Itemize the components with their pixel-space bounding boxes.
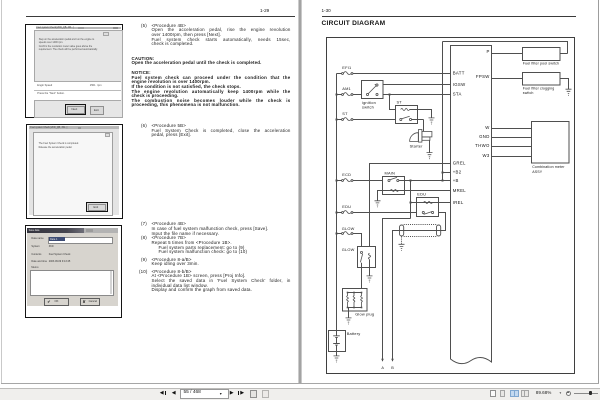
svg-text:ST: ST	[397, 99, 403, 104]
svg-text:ASSY: ASSY	[532, 170, 543, 174]
wire IGSW	[383, 84, 451, 86]
svg-text:IGSW: IGSW	[453, 82, 466, 87]
junction +B branch to EDU	[410, 180, 412, 182]
junction +B	[442, 180, 444, 182]
wire P to pool switch	[492, 53, 523, 55]
svg-text:GREL: GREL	[453, 161, 466, 166]
svg-text:MAIN: MAIN	[385, 170, 396, 175]
ground ST relay	[429, 118, 435, 124]
junction ST on rail	[336, 119, 338, 121]
wire AM1 to ignition switch	[337, 94, 362, 96]
wire EDU out to shielded cable	[439, 213, 446, 231]
shielded cable tube right	[437, 225, 441, 236]
ground battery	[334, 356, 340, 362]
right viewer edge	[598, 0, 599, 383]
wire IREL through EDU coil	[411, 202, 451, 204]
wire BATT	[337, 73, 451, 75]
junction +B2	[442, 172, 444, 174]
junction STA branch	[389, 94, 391, 96]
junction AM1 on rail	[336, 94, 338, 96]
wire ST fuse to ST relay	[337, 119, 396, 121]
junction GLOW on rail	[336, 233, 338, 235]
svg-text:+B2: +B2	[453, 170, 462, 175]
glow plug coil 3	[361, 293, 363, 308]
junction ECD on rail	[336, 180, 338, 182]
left page	[2, 0, 298, 383]
wire glow relay contact to glow plugs	[361, 263, 363, 289]
page bottom shadow	[1, 383, 599, 384]
fuel filter pool switch	[523, 48, 561, 61]
svg-text:+B: +B	[453, 178, 459, 183]
wire W3	[492, 156, 532, 158]
svg-text:BATT: BATT	[453, 71, 465, 76]
wire +B from MAIN contacts	[399, 180, 451, 182]
ground glow relay	[367, 276, 373, 282]
glow plug assembly box	[343, 289, 368, 312]
wire GLOW fuse to glow relay	[337, 234, 362, 247]
wire FPSW to clogging switch	[492, 78, 523, 80]
wire +B2	[443, 172, 451, 174]
shielded cable tube left	[400, 225, 404, 236]
glow plug coil 2	[353, 293, 355, 308]
svg-text:Starter: Starter	[410, 144, 424, 149]
shield dashed outline	[404, 225, 437, 237]
wire ECD fuse to MAIN relay	[337, 180, 383, 182]
EDU driver unit	[417, 198, 439, 217]
wire glow plug to ground	[348, 308, 350, 318]
svg-text:ECD: ECD	[342, 172, 351, 177]
wire A line	[383, 219, 411, 362]
svg-text:ST: ST	[342, 111, 348, 116]
arrow A	[381, 359, 384, 362]
wire ST coil to ground	[410, 110, 432, 118]
starter	[410, 133, 419, 142]
svg-text:FPSW: FPSW	[476, 74, 490, 79]
svg-text:GND: GND	[479, 134, 490, 139]
junction IREL coil feed	[410, 202, 412, 204]
battery	[329, 331, 346, 352]
relay MAIN	[383, 177, 405, 195]
svg-text:A: A	[381, 366, 384, 370]
svg-text:THWO: THWO	[475, 143, 490, 148]
svg-text:EDU: EDU	[342, 204, 351, 209]
svg-text:EDU: EDU	[417, 191, 426, 196]
svg-text:STA: STA	[453, 92, 462, 97]
svg-text:W: W	[485, 125, 490, 130]
glow plug coil 1	[347, 293, 349, 308]
wire GND	[492, 137, 532, 139]
svg-text:GLOW: GLOW	[342, 247, 355, 252]
fuse EFI1	[342, 73, 344, 75]
shield drain dashed	[401, 237, 403, 245]
right page	[302, 0, 597, 383]
wire starter to ground	[429, 140, 431, 152]
ground clogging switch	[566, 89, 572, 95]
svg-text:MREL: MREL	[453, 188, 467, 193]
ground starter	[427, 153, 433, 159]
wire STA branch to ST relay coil	[390, 95, 396, 110]
wire EDU fuse	[337, 212, 417, 214]
wire MREL to MAIN coil	[378, 191, 451, 201]
svg-text:AM1: AM1	[342, 86, 351, 91]
svg-text:Combination meter: Combination meter	[532, 165, 565, 169]
svg-text:Fuel filter pool switch: Fuel filter pool switch	[523, 62, 559, 66]
svg-text:P: P	[486, 49, 489, 54]
right toolbar icons	[490, 390, 495, 397]
combination meter ASSY	[532, 122, 570, 164]
wire W	[492, 128, 532, 130]
wire top feed from pool switch down to +B	[443, 42, 568, 181]
wire THWO	[492, 146, 532, 148]
svg-text:GLOW: GLOW	[342, 226, 355, 231]
relay ST	[396, 106, 418, 124]
ECU main block with torn bottom edge	[451, 46, 492, 364]
svg-text:Battery: Battery	[347, 331, 361, 336]
gutter between pages	[298, 0, 299, 383]
fuse GLOW	[342, 233, 344, 235]
svg-text:B: B	[391, 366, 394, 370]
ground glow plug	[346, 318, 352, 324]
arrow B	[391, 359, 394, 362]
svg-text:W3: W3	[483, 153, 490, 158]
battery supply rail	[336, 74, 338, 331]
svg-text:Fuel filter clogging: Fuel filter clogging	[523, 86, 555, 90]
relay GLOW	[358, 247, 376, 268]
ignition switch	[362, 81, 384, 99]
fuse ECD	[342, 180, 344, 182]
wire STA	[383, 94, 451, 96]
wire GREL to glow relay coil	[370, 164, 451, 247]
svg-text:Glow plug: Glow plug	[355, 312, 374, 317]
svg-text:IREL: IREL	[453, 200, 464, 205]
ground shield	[399, 244, 405, 250]
svg-text:EFI1: EFI1	[342, 65, 351, 70]
wire ST contact to starter	[412, 120, 424, 132]
svg-text:switch: switch	[523, 91, 534, 95]
wire glow relay coil to ground	[369, 260, 371, 276]
schematic outer frame	[327, 38, 575, 374]
junction EDU on rail	[336, 212, 338, 214]
left viewer edge	[1, 0, 2, 383]
fuse AM1	[342, 94, 344, 96]
ground MAIN relay	[375, 201, 381, 207]
wire B shielded line	[393, 231, 442, 362]
wire EDU feed vertical	[410, 181, 412, 219]
fuse ST	[342, 119, 344, 121]
fuse EDU	[342, 212, 344, 214]
svg-text:switch: switch	[362, 105, 374, 110]
fuel filter clogging switch	[523, 73, 561, 86]
